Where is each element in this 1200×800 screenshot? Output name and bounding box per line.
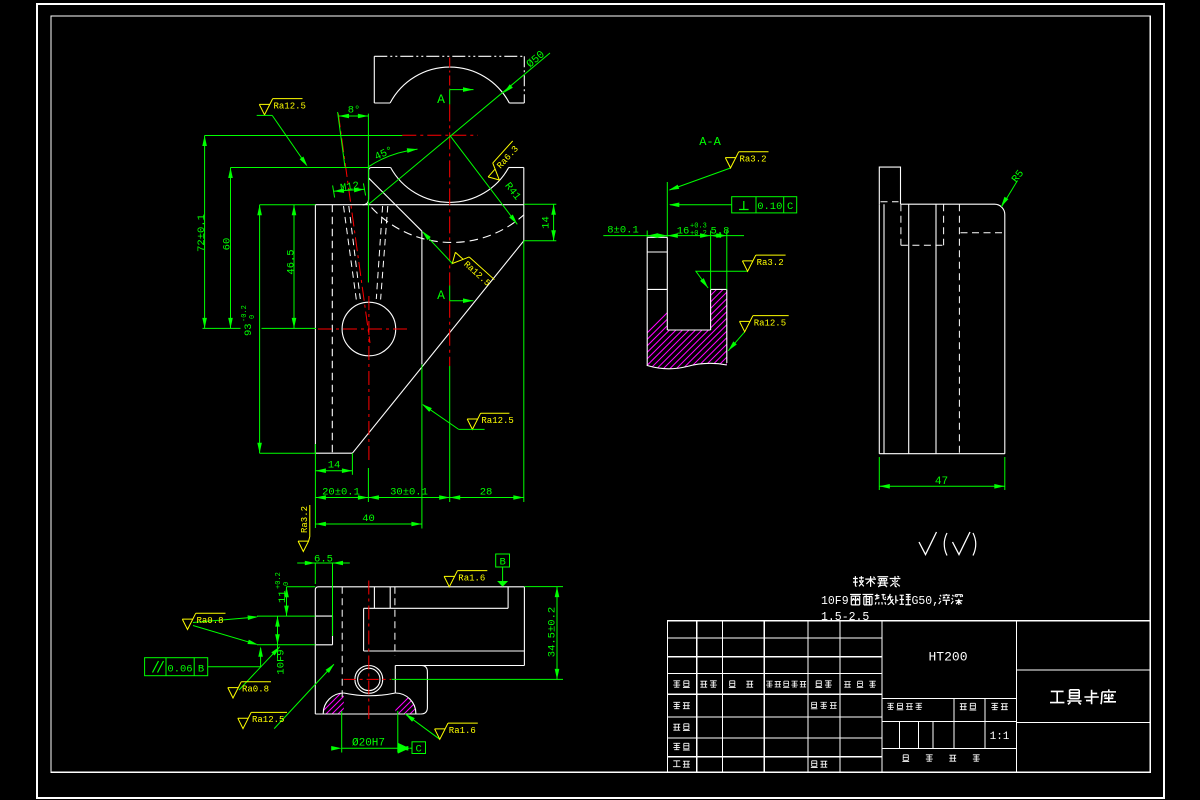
title block left section row lines — [668, 638, 883, 757]
dim 93/46.5 extension line top — [260, 204, 316, 206]
top clamp piece D50 arc — [390, 67, 509, 103]
label sheji — [673, 702, 680, 709]
label nianyueri — [844, 682, 850, 688]
title block outline — [668, 621, 1151, 773]
arrow R5 — [999, 197, 1008, 208]
label biaoji — [673, 680, 680, 687]
bv pad right wall — [394, 666, 396, 694]
arrows 5.8 dim — [711, 233, 722, 238]
bv right pad quarter arc — [395, 693, 416, 714]
dim 40 line — [315, 523, 422, 525]
datum C filled triangle — [398, 743, 410, 754]
bv lower shelf line — [395, 665, 524, 667]
svg-text:28: 28 — [480, 487, 493, 499]
boss top edge — [369, 168, 391, 171]
bv arch under hole — [344, 693, 396, 696]
Ra1.6 flag bv bottom — [435, 723, 478, 739]
arrow on perp leader — [669, 203, 680, 208]
left edge lower extension — [314, 444, 316, 528]
body left edge — [314, 205, 316, 454]
arrows dim 14 bottom — [315, 468, 326, 473]
A-A dim line — [603, 235, 744, 237]
dim 93 extension line bottom — [260, 452, 316, 454]
perpendicular symbol — [739, 201, 749, 210]
bv boss left line — [373, 587, 375, 609]
svg-text:Ra1.6: Ra1.6 — [449, 726, 476, 736]
svg-text:+0.2: +0.2 — [275, 572, 283, 589]
svg-text:1.5-2.5: 1.5-2.5 — [821, 611, 869, 624]
dim 6.5 extensions — [315, 563, 332, 636]
side slot line 1 — [908, 204, 910, 454]
bv right step wall — [507, 587, 509, 609]
bv slab top line — [364, 607, 509, 609]
svg-text:6.5: 6.5 — [314, 554, 333, 566]
45deg arc dim — [369, 149, 418, 167]
arrows chain 30 — [368, 495, 379, 500]
body bottom edge — [315, 452, 352, 454]
side right edge — [1004, 215, 1006, 454]
Ra3.2 flag A-A top — [725, 152, 768, 168]
bv right edge — [523, 587, 525, 666]
8deg reference vertical — [367, 114, 369, 283]
arrow parallelism — [258, 646, 263, 657]
label gongyi — [673, 761, 681, 767]
dim 11 line — [286, 587, 288, 616]
right edge extension lower — [523, 241, 525, 502]
Ra12.5 flag bv — [238, 712, 287, 728]
section mark A top — [450, 90, 474, 105]
datum B box — [496, 554, 510, 567]
side top edge — [901, 203, 995, 205]
bv hole chamfer circle — [358, 668, 380, 690]
svg-text:B: B — [499, 557, 505, 569]
Ra3.2 flag A-A inner — [742, 255, 785, 271]
arrow Ra12.5 bv — [326, 662, 337, 673]
boss left edge with fillet — [363, 171, 369, 205]
svg-text:14: 14 — [328, 460, 341, 472]
arrows chain 20 — [315, 495, 326, 500]
parenthesized check symbol — [944, 533, 947, 556]
svg-text:30±0.1: 30±0.1 — [390, 487, 428, 499]
Ra1.6 lower leader — [405, 714, 440, 740]
chamfer edge 45deg — [369, 178, 422, 231]
label chushu — [700, 681, 707, 687]
svg-text:47: 47 — [935, 476, 948, 488]
center extension lower — [449, 366, 451, 502]
arrows 34.5 — [555, 587, 560, 598]
Ra0.8 flag bv upper — [182, 613, 225, 629]
label genggai wenjianhao — [766, 681, 772, 687]
arrow D50 leader — [502, 84, 513, 94]
A-A extension lines — [647, 231, 727, 290]
svg-text:20±0.1: 20±0.1 — [322, 487, 360, 499]
label bili — [991, 703, 998, 710]
svg-text:Ra12.5: Ra12.5 — [252, 715, 284, 725]
Ra3.2 flag rotated between views — [298, 505, 310, 552]
bv slab bottom line — [364, 650, 525, 652]
svg-text:-0.2: -0.2 — [241, 305, 249, 322]
title block left section column lines — [697, 621, 840, 773]
arrows 16 dim — [667, 233, 678, 238]
M12 hole hidden line left outer — [344, 206, 357, 300]
dim 14 right line — [553, 204, 555, 241]
body top edge — [315, 204, 523, 206]
svg-text:46.5: 46.5 — [286, 249, 298, 274]
bv hidden wall right — [394, 587, 396, 656]
arrows 6.5 outside — [305, 561, 316, 566]
svg-text:Ra3.2: Ra3.2 — [757, 258, 784, 268]
leader shoulder Ra12.5 top-left — [257, 114, 273, 116]
svg-text:G50,: G50, — [912, 595, 940, 608]
slot edge extension lower — [421, 364, 423, 528]
svg-text:60: 60 — [222, 238, 234, 251]
hole circle on inclined face — [342, 302, 396, 356]
arrows M12 — [333, 188, 344, 193]
8deg slanted extension — [338, 112, 345, 167]
Ra12.5 flag top-left — [259, 99, 306, 115]
svg-text:Ra3.2: Ra3.2 — [740, 155, 767, 165]
tech req heading jishu yaoqiu — [853, 576, 864, 586]
svg-text:Ra0.8: Ra0.8 — [197, 616, 224, 626]
Ra3.2 no2 leader — [696, 271, 748, 288]
dim 47 line — [879, 485, 1005, 487]
dim line 46.5 — [293, 205, 295, 329]
bv hole outer circle — [355, 666, 383, 694]
bv red vertical centerline — [368, 581, 370, 720]
red slanted M12 centerline — [338, 114, 370, 344]
M12 hole hidden line right inner — [376, 206, 382, 299]
hidden R41 groove arc dashed — [372, 208, 524, 243]
Ra1.6 flag bottom view top — [444, 571, 487, 587]
arrows dim 60 — [228, 168, 233, 179]
svg-text:0: 0 — [283, 582, 291, 586]
side boss outline — [879, 167, 900, 204]
title block right column rows — [1016, 670, 1150, 723]
side boss hidden line — [881, 201, 899, 203]
svg-text:Ra3.2: Ra3.2 — [300, 506, 310, 533]
A-A step line — [647, 251, 667, 253]
D20H7 extensions — [342, 711, 398, 753]
A-A hatch boundary left — [647, 288, 667, 290]
label biaozhunhua — [811, 702, 818, 709]
Ra12.5 leader — [728, 332, 745, 351]
M12 extension ticks — [333, 183, 366, 197]
datum C stem — [410, 747, 413, 749]
bv 10F9 slot bottom — [315, 644, 332, 646]
Ra12.5 flag mid incline — [448, 248, 494, 292]
magenta hatching left pad — [310, 684, 380, 724]
dim 60 extension line — [231, 167, 369, 169]
arrows dim 40 — [315, 522, 326, 527]
side hidden hole left — [900, 204, 902, 245]
side left edge — [878, 204, 880, 454]
Ra6.3 flag on arc — [484, 141, 525, 184]
datum B filled triangle — [497, 581, 508, 587]
Ra0.8 upper leaders — [193, 617, 257, 644]
bv center/34.5 extension line — [392, 678, 564, 680]
dim line 72 — [204, 136, 206, 329]
label zhongliang — [960, 704, 967, 710]
bv hidden wall left — [341, 587, 343, 700]
svg-text:A-A: A-A — [699, 135, 721, 149]
magenta hatching A-A — [600, 280, 843, 400]
side hidden hole right — [943, 204, 945, 245]
svg-text:Ra12.5: Ra12.5 — [754, 318, 786, 328]
svg-text:0: 0 — [249, 315, 257, 319]
Ra12.5 flag A-A — [740, 316, 789, 332]
arrows dim 14 right — [551, 204, 556, 215]
svg-text:C: C — [416, 744, 422, 756]
svg-text:34.5±0.2: 34.5±0.2 — [547, 607, 559, 657]
tech req line1 cui shen — [939, 594, 950, 605]
M12 hole hidden line right outer — [381, 206, 388, 300]
red vertical centerline of hole circle — [368, 296, 370, 464]
A-A slot right wall — [710, 289, 712, 330]
bv bottom edge — [315, 713, 421, 715]
arrows D20H7 — [331, 746, 342, 751]
bv red horizontal centerline — [344, 678, 391, 680]
side corner radius R5 — [995, 204, 1005, 214]
hidden slot edge dashed — [331, 205, 333, 454]
arrows dim 46.5 — [292, 205, 297, 216]
svg-text:Ra12.5: Ra12.5 — [274, 101, 306, 111]
svg-text:8±0.1: 8±0.1 — [607, 225, 639, 237]
top clamp piece phantom top edge — [374, 55, 524, 57]
right plateau edge — [509, 167, 524, 169]
label zhitu — [673, 724, 680, 730]
leader Ra12.5 mid — [423, 232, 452, 263]
arrow R41 leader — [509, 215, 519, 226]
arrows 11 — [284, 587, 289, 598]
dim 10F9 line — [277, 616, 279, 658]
bv foot fillet right — [421, 666, 428, 715]
arrow Ra12.5 leader — [726, 341, 736, 352]
arrows dim 8deg — [339, 114, 350, 119]
Ra12.5 bv leader — [274, 664, 334, 728]
slot side edge on inclined face — [421, 231, 423, 364]
datum C box — [412, 742, 426, 754]
label fenqu — [729, 681, 736, 688]
svg-text:1:1: 1:1 — [990, 731, 1010, 743]
M12 hole hidden line left inner — [349, 206, 361, 299]
side hidden hole bottom — [901, 244, 944, 246]
perpendicularity leader — [670, 204, 732, 206]
arrow section A bottom — [463, 298, 474, 303]
top clamp piece right edge — [523, 56, 525, 103]
D20H7 dim line — [342, 747, 398, 749]
label jieduanbiaoji — [887, 703, 894, 710]
Ra0.8 flag bv lower — [228, 682, 271, 698]
svg-text:0.10: 0.10 — [757, 201, 782, 213]
parallelism frame — [145, 658, 208, 676]
svg-text:HT200: HT200 — [928, 650, 967, 665]
arrows dim 93 — [257, 205, 262, 216]
bv left pad quarter arc — [323, 693, 344, 714]
slot face extensions — [257, 616, 315, 645]
arrows 10F9 — [275, 616, 280, 627]
side hidden step line — [961, 232, 1005, 234]
leader Ra12.5 lower — [423, 405, 459, 430]
arrow Ra1.6 lower — [404, 712, 415, 722]
dim 6.5 line — [297, 562, 350, 564]
label gong zhang di zhang — [902, 755, 909, 762]
title block middle small cells — [900, 698, 985, 748]
dim 72 extension line top — [205, 135, 403, 137]
dim line 93 — [259, 205, 261, 454]
svg-text:10F9: 10F9 — [276, 649, 288, 674]
top clamp piece left edge — [373, 56, 375, 103]
svg-text:Ra12.5: Ra12.5 — [481, 416, 513, 426]
bv 10F9 slot top — [315, 615, 332, 617]
A-A right edge — [726, 289, 728, 363]
arrow section A top — [463, 87, 474, 92]
top clamp piece bottom left segment — [374, 102, 390, 104]
arrows chain 28 — [450, 495, 461, 500]
dim 14 right extensions — [524, 204, 557, 241]
A-A slot bottom — [667, 329, 710, 331]
arrow Ra3.2 no2 — [700, 278, 710, 289]
bv left edge — [314, 590, 316, 714]
A-A slot left wall — [666, 237, 668, 330]
Ra3.2 leader line — [670, 168, 731, 190]
title block middle column edges — [882, 621, 1016, 773]
side bottom edge — [879, 453, 1005, 455]
arrow on Ra3.2 leader — [668, 185, 679, 193]
arrows dim 72 — [202, 136, 207, 147]
arrows dim 47 — [879, 484, 890, 489]
body right edge — [523, 168, 525, 241]
svg-text:93: 93 — [243, 323, 255, 336]
8deg dim line — [339, 115, 369, 117]
D50 leader diagonal — [368, 53, 550, 205]
bv 10F9 slot end wall — [332, 616, 334, 645]
finish check symbol — [919, 532, 937, 555]
bv boss right line — [389, 587, 391, 609]
svg-text:40: 40 — [362, 513, 375, 525]
svg-text:0.06: 0.06 — [167, 664, 192, 676]
arrows 8 dim — [647, 233, 658, 238]
red vertical centerline main — [449, 104, 451, 285]
svg-text:Ra0.8: Ra0.8 — [242, 685, 269, 695]
corner extension for dim 14 bottom — [351, 453, 353, 475]
leader Ra12.5 top-left — [272, 115, 306, 164]
Ra0.8 lower leader — [239, 647, 280, 690]
dim 11 extension — [287, 586, 316, 588]
red vertical centerline lower — [449, 301, 451, 366]
A-A top face — [647, 236, 667, 238]
top clamp piece bottom right segment — [509, 102, 524, 104]
side left inner edge — [883, 204, 885, 454]
svg-text:B: B — [198, 664, 204, 676]
red horizontal centerline of hole circle — [318, 328, 410, 330]
svg-text:16: 16 — [677, 226, 690, 238]
svg-text:Ra1.6: Ra1.6 — [458, 573, 485, 583]
arrow 45deg arc — [407, 147, 418, 153]
parallelism leader — [208, 648, 261, 667]
side hidden line full — [958, 204, 960, 454]
svg-text:14: 14 — [541, 216, 553, 229]
circle center extension line — [203, 327, 317, 329]
title block middle rows — [882, 698, 1016, 748]
bv top edge — [315, 587, 524, 590]
label qianming — [815, 681, 822, 688]
svg-text:A: A — [437, 288, 445, 303]
A-A left edge — [646, 237, 648, 366]
bv top extension to 34.5 — [524, 586, 563, 588]
title text gongju kazuo — [1050, 691, 1064, 702]
Ra12.5 flag lower incline — [467, 413, 514, 429]
dim 47 extensions — [879, 457, 1005, 490]
datum B stem — [502, 567, 504, 581]
section mark A bottom — [450, 286, 474, 301]
tech req line1 liang mian re chu li — [850, 594, 861, 604]
dim line 60 — [230, 168, 232, 329]
parallel symbol — [153, 661, 164, 673]
R5 leader — [1002, 181, 1018, 207]
A-A break wavy line — [647, 363, 727, 368]
side slot line 2 — [935, 204, 937, 454]
dim 34.5 line — [556, 587, 558, 680]
arrows Ra0.8 upper — [248, 615, 259, 620]
bv slab left wall — [363, 608, 365, 651]
body inclined face edge — [352, 241, 523, 453]
svg-text:Ø20H7: Ø20H7 — [352, 738, 385, 750]
svg-text:C: C — [787, 201, 793, 213]
svg-text:A: A — [437, 92, 445, 107]
svg-text:10F9: 10F9 — [821, 595, 849, 608]
D50 notch arc — [391, 168, 509, 203]
R41 leader diagonal — [450, 135, 518, 224]
red centerline of top piece — [449, 58, 451, 90]
dim 14 bottom line — [315, 470, 352, 472]
svg-text:72±0.1: 72±0.1 — [196, 214, 208, 252]
chain dim line 20/30/28 — [315, 497, 523, 499]
arrow Ra0.8 lower — [271, 645, 282, 656]
tolerance frame — [732, 197, 797, 213]
A-A right step face — [711, 288, 727, 290]
leader shoulder Ra12.5 lower — [459, 428, 485, 430]
label pizhun — [811, 761, 818, 768]
M12 axis extension lower — [367, 468, 369, 502]
label shenhe — [673, 743, 680, 750]
A-A leader vertical — [666, 182, 668, 237]
magenta hatching right pad — [382, 684, 452, 724]
M12 dim line — [334, 189, 365, 191]
red horizontal centerline D50 — [402, 134, 478, 136]
